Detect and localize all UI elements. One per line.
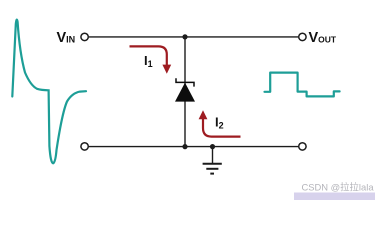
- diode D1 (zener) triangle: [175, 83, 195, 102]
- terminal VOUT circle: [299, 33, 306, 40]
- terminal bottom-left circle: [81, 143, 88, 150]
- output waveform (teal clamped square wave): [265, 73, 340, 97]
- wire top: [89, 36, 298, 38]
- current arrow I2: [203, 119, 241, 137]
- current arrow I1: [130, 46, 167, 65]
- wire bottom: [89, 146, 298, 148]
- watermark band: [294, 193, 375, 201]
- terminal VIN circle: [81, 33, 88, 40]
- node top junction: [182, 34, 187, 39]
- ground: [203, 147, 222, 174]
- svg-text:CSDN @拉拉lala: CSDN @拉拉lala: [302, 182, 375, 193]
- input waveform (teal spike with undershoot): [12, 20, 86, 164]
- node ground junction: [210, 144, 215, 149]
- diode D1 zener cathode bar: [176, 78, 194, 86]
- terminal bottom-right circle: [299, 143, 306, 150]
- wire diode vertical: [184, 37, 186, 147]
- node bottom diode junction: [182, 144, 187, 149]
